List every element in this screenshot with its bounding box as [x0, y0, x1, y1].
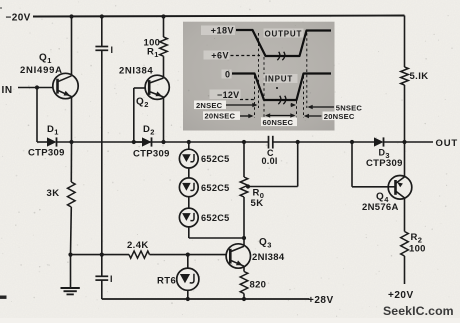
svg-text:5.IK: 5.IK — [410, 71, 429, 82]
svg-text:0.0I: 0.0I — [262, 156, 278, 166]
svg-text:I: I — [110, 274, 113, 284]
svg-text:5NSEC: 5NSEC — [336, 103, 363, 112]
svg-text:652C5: 652C5 — [201, 154, 230, 164]
svg-text:60NSEC: 60NSEC — [263, 118, 294, 127]
svg-text:20NSEC: 20NSEC — [324, 112, 355, 121]
svg-text:5K: 5K — [251, 198, 264, 209]
svg-text:CTP309: CTP309 — [133, 148, 170, 159]
svg-text:−12V: −12V — [217, 90, 239, 100]
svg-text:2NI384: 2NI384 — [252, 252, 285, 263]
svg-text:−20V: −20V — [6, 12, 31, 23]
svg-text:I: I — [111, 45, 114, 55]
svg-text:IN: IN — [2, 85, 13, 96]
svg-text:OUT: OUT — [436, 138, 458, 149]
svg-text:652C5: 652C5 — [201, 183, 230, 193]
svg-text:20NSEC: 20NSEC — [205, 112, 236, 121]
svg-text:RT6: RT6 — [157, 276, 176, 287]
svg-text:+28V: +28V — [308, 295, 334, 306]
svg-text:CTP309: CTP309 — [366, 158, 403, 169]
svg-text:SeekIC.com: SeekIC.com — [383, 304, 454, 318]
svg-text:CTP309: CTP309 — [28, 147, 65, 158]
svg-text:2N576A: 2N576A — [362, 202, 399, 213]
svg-text:+18V: +18V — [211, 26, 234, 36]
svg-text:0: 0 — [225, 70, 231, 80]
svg-text:2.4K: 2.4K — [127, 240, 149, 251]
svg-text:100: 100 — [409, 244, 426, 255]
svg-text:INPUT: INPUT — [265, 75, 293, 84]
svg-text:3K: 3K — [47, 188, 60, 199]
svg-text:+20V: +20V — [388, 290, 414, 301]
svg-text:2NI499A: 2NI499A — [20, 65, 63, 76]
svg-text:2NI384: 2NI384 — [119, 66, 153, 77]
svg-text:OUTPUT: OUTPUT — [265, 29, 303, 38]
svg-text:820: 820 — [250, 279, 267, 290]
svg-text:652C5: 652C5 — [201, 213, 230, 223]
svg-text:+6V: +6V — [211, 51, 229, 61]
